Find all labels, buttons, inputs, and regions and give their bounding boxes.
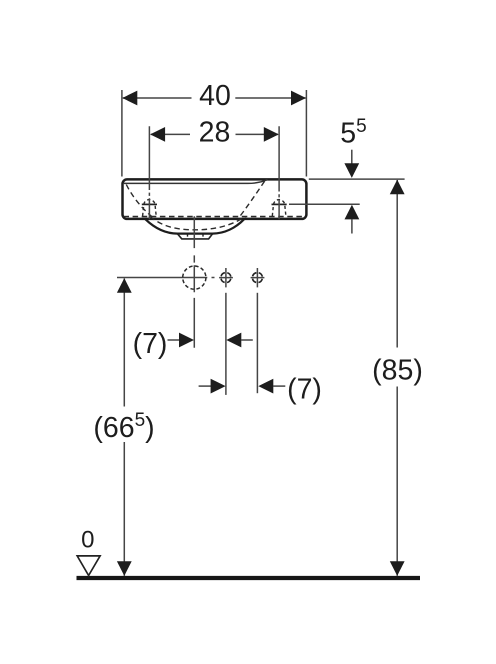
right tap centerline	[278, 126, 280, 219]
tap height extension line	[289, 203, 360, 205]
dim 5^5 lower arrow (up)	[345, 205, 360, 220]
svg-text:(85): (85)	[372, 355, 423, 387]
svg-text:28: 28	[199, 117, 231, 149]
bowl left slope (dashed)	[126, 185, 151, 217]
dim 28 left arrow	[150, 127, 165, 142]
basin inner rim line	[124, 180, 268, 184]
dim (85) bottom arrow (down)	[390, 561, 405, 576]
top right extension line	[309, 178, 405, 180]
dim (85) line	[396, 180, 398, 576]
left tap hole cross	[142, 203, 157, 205]
dim (7) lower left-pointing arrow	[258, 379, 273, 394]
dim 28 line	[151, 133, 278, 135]
dim (7) lower right-pointing arrow	[199, 385, 212, 387]
right tap hole cross	[272, 203, 287, 205]
dim 5^5 upper arrow (down)	[351, 150, 353, 164]
bowl bottom hidden (dashed)	[150, 216, 246, 229]
dim 40 left arrow	[122, 91, 137, 106]
svg-text:0: 0	[81, 527, 94, 554]
dim 40 right arrow	[291, 91, 306, 106]
basin outline	[123, 179, 307, 219]
dim (66^5) line	[123, 279, 125, 576]
bowl underside (solid)	[146, 219, 245, 233]
drain vertical centerline	[193, 216, 195, 347]
dim 40 line	[123, 97, 306, 99]
svg-text:(7): (7)	[287, 373, 322, 405]
svg-text:(7): (7)	[133, 328, 168, 360]
dim (7) upper leader line	[168, 339, 181, 341]
dim (85) top arrow (up)	[390, 180, 405, 195]
bowl right slope (dashed)	[241, 181, 265, 215]
left tap hole dashed cone	[143, 200, 157, 216]
dim (66^5) top arrow (up)	[117, 278, 132, 293]
dim 28 right arrow	[264, 127, 279, 142]
svg-text:40: 40	[199, 80, 231, 112]
dim 40 right extension line	[305, 90, 307, 177]
fixing hole 1 cross	[219, 268, 233, 287]
right tap hole dashed cone	[272, 200, 286, 216]
dim (7) upper left-pointing arrow	[226, 333, 241, 348]
holes horizontal centerline	[117, 277, 215, 279]
dim 40 left extension line	[121, 90, 123, 177]
fixing hole 1 circle	[221, 273, 231, 283]
basin hidden back edge (dashed)	[124, 216, 306, 218]
datum triangle	[77, 556, 100, 576]
fixing hole 2 cross	[251, 268, 265, 287]
svg-text:(665): (665)	[93, 410, 154, 444]
fixing hole 2 lower line	[256, 293, 258, 393]
fixing hole 1 lower line	[225, 293, 227, 395]
floor line	[77, 576, 421, 580]
drain hole dashed circle	[183, 266, 206, 289]
dim (66^5) bottom arrow (down)	[117, 561, 132, 576]
drain flange	[178, 234, 213, 239]
fixing hole 2 circle	[252, 273, 262, 283]
dim (7) upper right-pointing arrow	[179, 333, 194, 348]
left tap centerline	[148, 126, 150, 219]
